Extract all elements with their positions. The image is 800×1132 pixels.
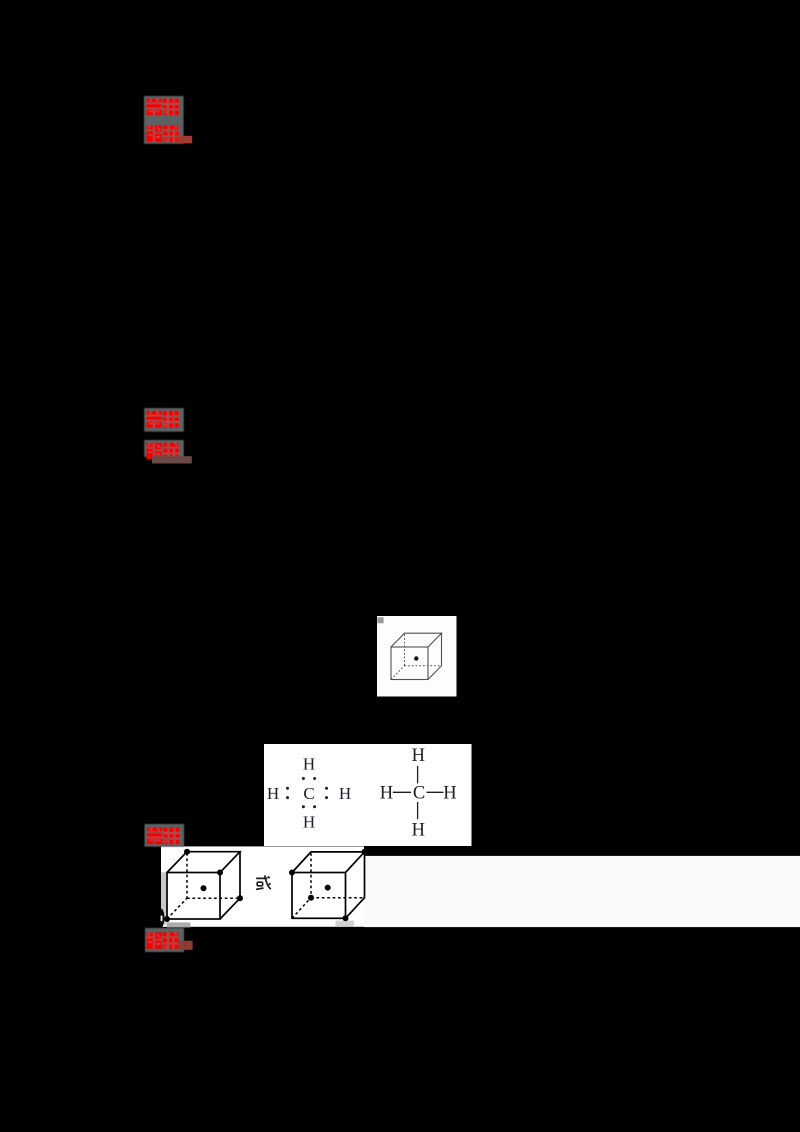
svg-text:H: H	[267, 784, 279, 803]
badge 1 brick-red tail rect	[177, 136, 192, 144]
badge 3 red characters	[147, 828, 180, 845]
cube K2 visible top/right edges	[167, 852, 240, 919]
badge label 答案/解析 pair 1 gray box	[144, 96, 184, 144]
text 或 (or) between cubes	[256, 875, 271, 889]
gray scan artifact under cube K3	[336, 921, 354, 927]
badge 2 red characters row 1	[146, 411, 179, 428]
badge 1 red characters row 1 (答案)	[146, 99, 179, 116]
white panel: answer band left (two cubes)	[161, 846, 364, 926]
white panel: single-cube figure box	[377, 616, 457, 697]
svg-text:H: H	[412, 746, 425, 766]
Lewis bonding electron pair below C	[302, 805, 316, 808]
svg-text:H: H	[303, 754, 315, 773]
badge 2 red characters row 2	[146, 443, 179, 460]
structural bond C-H right	[427, 791, 444, 793]
cube K2 centre atom dot	[201, 885, 207, 891]
structural bond C-H bottom	[417, 802, 419, 819]
badge 1 red characters row 2 (解析)	[146, 125, 179, 141]
badge label pair 2 upper gray box (答案)	[144, 408, 184, 432]
svg-text:C: C	[413, 783, 425, 803]
gray scan artifact under cube K2	[167, 922, 191, 927]
white panel: Lewis/structural formula box	[264, 744, 472, 846]
badge 4 brick-red tail rect	[178, 941, 193, 950]
cube K2 vertex atom dots	[164, 849, 243, 922]
cube K3 front face	[292, 873, 346, 919]
Lewis bonding electron pair right of C	[325, 787, 328, 799]
cube K3 centre atom dot	[325, 885, 331, 891]
svg-text:H: H	[339, 784, 351, 803]
Lewis bonding electron pair above C	[302, 777, 316, 780]
svg-text:C: C	[303, 784, 314, 803]
cube K1 visible top/right edges	[391, 633, 442, 679]
structural bond C-H top	[417, 766, 419, 784]
badge 2 brick-red tail rect	[152, 456, 192, 463]
cube K1 front face	[391, 647, 428, 680]
black ink blob at band left edge	[159, 909, 164, 928]
badge label 4 gray box (解析)	[145, 928, 184, 952]
cube K2 hidden edges (dashed)	[167, 853, 240, 919]
svg-text:H: H	[443, 783, 456, 803]
badge label pair 2 lower gray box (解析)	[144, 440, 184, 457]
white tick inside blob	[161, 916, 163, 922]
cube K1 hidden edges (dashed)	[391, 634, 442, 679]
Lewis bonding electron pair left of C	[286, 787, 289, 799]
cube K3 vertex atom dots	[289, 849, 368, 921]
svg-text:H: H	[380, 783, 393, 803]
svg-text:H: H	[412, 820, 425, 840]
svg-text:H: H	[303, 812, 315, 831]
badge label 3 gray box (答案)	[145, 824, 185, 847]
badge 4 red characters	[146, 932, 179, 949]
structural bond H-C left	[393, 791, 411, 793]
cube K3 hidden edges (dashed)	[292, 853, 365, 918]
white panel: answer band right	[364, 856, 800, 927]
cube K3 visible top/right edges	[292, 852, 365, 918]
cube K2 front face	[167, 873, 220, 920]
cube K1 centre dot	[414, 656, 418, 660]
gray scan artifact strip left of cube K2	[161, 872, 167, 925]
